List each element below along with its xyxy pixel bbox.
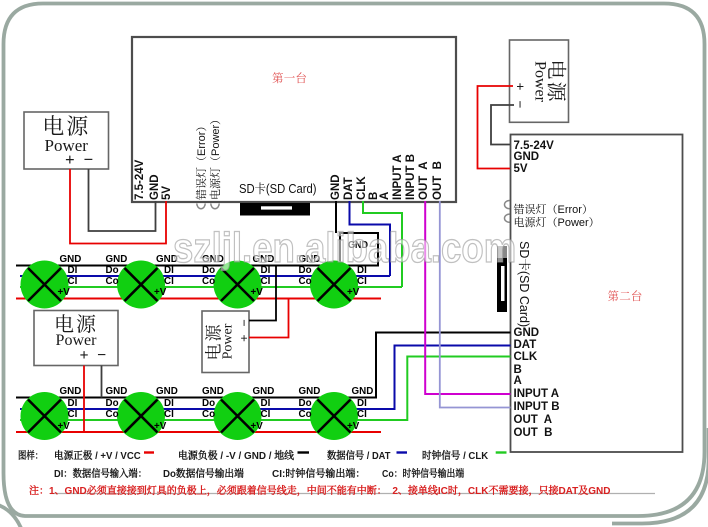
wire U1 OUT B to U2 INPUT B: [440, 201, 511, 408]
net label row1 DI3: [261, 266, 271, 276]
net label row2 GND seg3a: [253, 387, 275, 397]
net label row1 GND seg2a: [156, 255, 178, 265]
net label row2 CI1: [68, 410, 78, 420]
pin label U1 B: [368, 192, 380, 200]
pin label U1 7.5-24V: [134, 160, 146, 200]
LED indicator U1 power: [211, 204, 219, 209]
wire row1 DAT bus: [20, 275, 390, 277]
label U2 title 第二台: [608, 290, 643, 302]
wire row2 +V bus: [16, 431, 381, 433]
net label row2 GND seg1b: [106, 387, 128, 397]
net label row1 Do1: [106, 266, 119, 276]
net label row2 DI4: [357, 399, 367, 409]
LED module row2 D3: [214, 392, 262, 440]
wire row1 GND bus: [16, 265, 340, 267]
pin label U1 GND: [149, 174, 161, 200]
legend underline gray: [50, 493, 655, 495]
label U1 SD card: [239, 183, 317, 195]
legend line2: [0, 465, 708, 479]
pin label U1 DAT: [343, 177, 355, 200]
wire row1 +V bus: [16, 298, 381, 300]
pin label U2 INPUT A: [514, 388, 560, 400]
wire PS4 - to row2 GND: [101, 366, 103, 398]
wire U1 OUT A to U2 INPUT A: [425, 201, 510, 394]
net label row2 DI3: [261, 399, 271, 409]
net label row2 +V1: [58, 422, 70, 432]
pin label U1 GND out: [330, 174, 342, 200]
net label row1 CI3: [261, 277, 271, 287]
net label row1 +V2: [154, 288, 166, 298]
power supply PS1 label: [24, 112, 109, 169]
LED indicator U2 power: [504, 214, 509, 222]
pin label U2 OUT B: [514, 427, 553, 439]
net label row2 CI3: [261, 410, 271, 420]
pin label U2 5V: [514, 163, 528, 175]
net label row2 CI4: [357, 410, 367, 420]
legend dash GND black: [298, 451, 310, 453]
LED module row1 D2: [117, 261, 165, 309]
pin label U1 CLK: [356, 176, 368, 200]
watermark: [173, 224, 516, 272]
net label row1 DI4: [357, 266, 367, 276]
controller U1 box: [132, 37, 456, 202]
LED module row1 D3: [214, 261, 262, 309]
wire PS3 + to row1 +V: [249, 299, 289, 338]
SD card slot U1: [240, 203, 310, 216]
net label row1 CI2: [164, 277, 174, 287]
net label row2 Co2: [202, 410, 215, 420]
net label row1 CI1: [68, 277, 78, 287]
power supply PS2 label (rotated): [509, 40, 568, 122]
net label row1 GND seg2b: [202, 255, 224, 265]
power supply PS1 box: [24, 112, 109, 169]
pin label U2 B: [514, 364, 522, 376]
border frame bottom-right outer arc: [612, 428, 708, 524]
net label row1 +V3: [251, 288, 263, 298]
pin label U1 A: [379, 192, 391, 200]
net label row2 Do1: [106, 399, 119, 409]
net label row2 GND seg2a: [156, 387, 178, 397]
wire row2 CLK bus: [20, 357, 511, 421]
controller U2 box: [511, 135, 683, 453]
wire U1 DAT to row1: [350, 201, 391, 276]
pin label U1 OUT A: [418, 161, 430, 200]
label U2 SD card (rotated): [518, 241, 530, 327]
pin label U1 INPUT B: [405, 154, 417, 200]
net label row2 GND seg1a: [60, 387, 82, 397]
wire row2 DAT bus: [20, 346, 511, 410]
legend dash CLK green: [496, 451, 507, 453]
LED indicator U2 error: [505, 201, 510, 209]
label U1 error LED (rotated): [195, 121, 207, 200]
border frame bottom-left fragment: [0, 505, 21, 527]
wire row1 CLK bus: [20, 286, 402, 288]
legend note line3: [0, 482, 708, 496]
label U2 error LED: [514, 203, 593, 215]
LED indicator U1 error: [197, 204, 205, 209]
net label row1 GND seg1b: [106, 255, 128, 265]
net label row1 Do3: [299, 266, 312, 276]
label U2 power LED: [514, 216, 600, 228]
net label row1 GND seg3a: [253, 255, 275, 265]
pin label U2 A: [514, 375, 522, 387]
net label row1 Co2: [202, 277, 215, 287]
wire PS2 + to U2 5V: [478, 86, 514, 169]
LED module row2 D4: [310, 392, 358, 440]
node GND terminal box row1: [340, 233, 378, 266]
net label row2 Co1: [106, 410, 119, 420]
wire row2 GND bus: [16, 333, 511, 398]
net label row1 GND terminal: [348, 241, 368, 251]
net label row1 GND seg1a: [60, 255, 82, 265]
net label row1 GND seg3b: [299, 255, 321, 265]
net label row1 DI2: [164, 266, 174, 276]
LED module row2 D1: [21, 392, 69, 440]
net label row1 CI4: [357, 277, 367, 287]
net label row2 DI1: [68, 399, 78, 409]
pin label U2 OUT A: [514, 414, 553, 426]
net label row1 Do2: [202, 266, 215, 276]
pin label U1 5V: [161, 186, 173, 200]
net label row2 +V2: [154, 422, 166, 432]
legend dash +V red: [144, 451, 154, 453]
net label row1 +V4: [347, 288, 359, 298]
net label row2 Co3: [299, 410, 312, 420]
LED module row1 D4: [310, 261, 358, 309]
LED module row2 D2: [117, 392, 165, 440]
pin label U2 7.5-24V: [514, 140, 554, 152]
legend line1: [0, 447, 708, 461]
net label row1 DI1: [68, 266, 78, 276]
power supply PS3 box: [202, 311, 249, 373]
net label row2 +V3: [251, 422, 263, 432]
net label row2 +V4: [347, 422, 359, 432]
LED module row1 D1: [21, 261, 69, 309]
pin label U2 GND in: [514, 327, 540, 339]
pin label U2 GND: [514, 151, 540, 163]
net label row1 +V1: [58, 288, 70, 298]
pin label U1 OUT B: [432, 161, 444, 200]
power supply PS3 label (rotated): [203, 310, 250, 372]
net label row1 Co3: [299, 277, 312, 287]
net label row2 GND seg3b: [299, 387, 321, 397]
pin label U2 INPUT B: [514, 401, 560, 413]
SD card slot U2: [497, 246, 507, 312]
label U1 title 第一台: [272, 72, 307, 84]
net label row1 Co1: [106, 277, 119, 287]
legend dash DAT navy: [397, 451, 408, 453]
net label row2 GND seg2b: [202, 387, 224, 397]
net label row2 GND end: [352, 387, 374, 397]
pin label U2 CLK: [514, 351, 538, 363]
power supply PS4 box: [34, 311, 118, 366]
wire U1 GND pin down: [335, 201, 337, 233]
label U1 power LED (rotated): [209, 114, 221, 200]
pin label U1 INPUT A: [392, 154, 404, 200]
wire PS1 - to U1 GND: [89, 169, 156, 231]
wire U1 CLK to row1: [363, 201, 402, 287]
net label row2 Do3: [299, 399, 312, 409]
wire PS2 - to U2 GND: [491, 105, 514, 145]
net label row2 DI2: [164, 399, 174, 409]
power supply PS2 box: [510, 40, 569, 122]
wire PS1 + to U1 5V: [70, 169, 166, 244]
net label row2 Do2: [202, 399, 215, 409]
pin label U2 DAT: [514, 339, 537, 351]
wire PS3 - to row1 GND: [249, 266, 276, 321]
wire PS4 + to row2 +V: [83, 366, 85, 433]
net label row2 CI2: [164, 410, 174, 420]
power supply PS4 label: [34, 311, 118, 366]
